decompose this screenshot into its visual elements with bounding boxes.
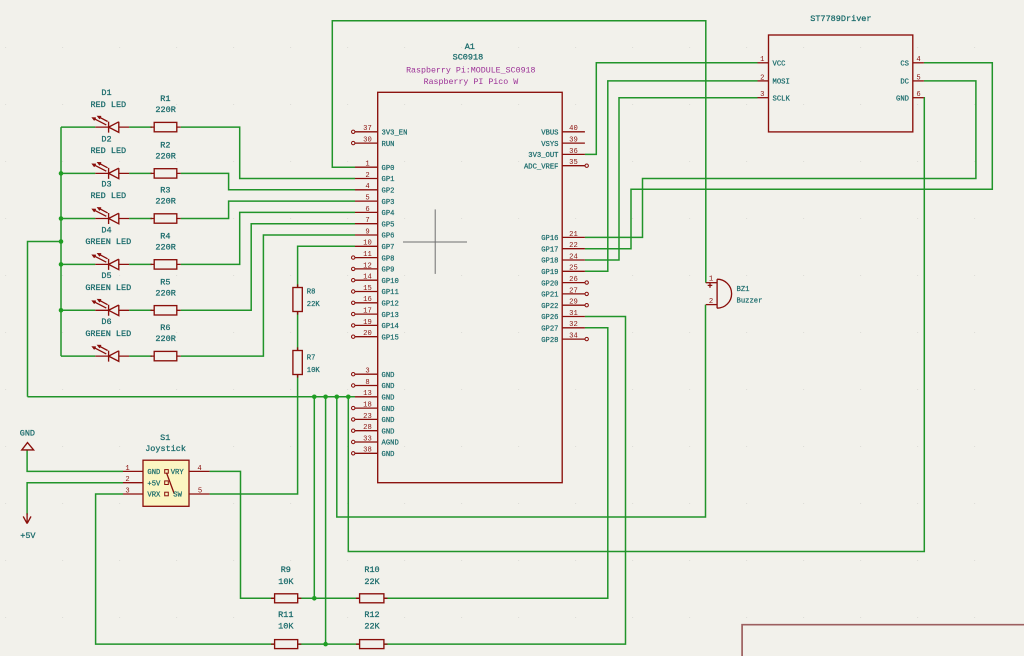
svg-text:A1: A1 [465,42,475,52]
svg-text:220R: 220R [155,288,175,298]
svg-text:1: 1 [365,161,369,169]
svg-text:VSYS: VSYS [541,141,558,149]
svg-text:3: 3 [760,91,764,99]
svg-text:31: 31 [569,310,578,318]
svg-text:14: 14 [363,274,372,282]
wire D5 row [61,309,152,311]
pin 4 VRY [171,465,210,477]
svg-text:GND: GND [382,451,395,459]
svg-text:R7: R7 [307,355,316,363]
svg-text:GP18: GP18 [541,258,558,266]
wire R9 to R10 [298,597,360,599]
pin 18 GND [352,402,395,414]
wire R5 to GP5 [181,224,355,311]
svg-text:37: 37 [363,125,372,133]
pin 8 GND [352,379,395,391]
wire LED cathode bus [60,127,62,356]
pin 5 DC [900,74,924,86]
svg-text:19: 19 [363,319,372,327]
svg-text:1: 1 [760,56,764,64]
LED D2 [90,134,129,179]
power symbol +5V [20,513,36,541]
svg-text:VBUS: VBUS [541,130,558,138]
pin 5 SW [173,487,209,499]
svg-text:R1: R1 [160,94,170,104]
LED D6 [85,317,131,362]
wire R7 bottom to joystick SW [210,375,298,495]
svg-text:GP0: GP0 [382,165,395,173]
svg-text:17: 17 [363,308,372,316]
svg-text:D3: D3 [101,179,111,189]
COMPONENTS [85,88,180,362]
pin 25 GP19 [541,265,585,277]
node LED bus D5 [59,308,64,313]
pin 20 GP15 [352,330,399,342]
wire D2 row [61,172,152,174]
pin 1 GP0 [355,161,394,173]
svg-text:1: 1 [709,275,713,283]
svg-text:GP27: GP27 [541,326,558,334]
wire GND bus to ST7789 GND [348,98,924,552]
svg-text:2: 2 [760,74,764,82]
pin 28 GND [352,424,395,436]
svg-text:GP2: GP2 [382,188,395,196]
svg-text:5: 5 [365,195,369,203]
wire R12 to GP26 [384,317,626,645]
svg-text:1: 1 [125,465,129,473]
svg-text:VRX: VRX [147,492,161,500]
resistor R10 [356,565,388,603]
pin 26 GP20 [541,276,588,288]
svg-text:6: 6 [365,206,369,214]
svg-text:40: 40 [569,125,578,133]
ground symbol GND [20,428,35,450]
svg-text:GND: GND [382,383,395,391]
svg-text:D5: D5 [101,271,111,281]
svg-text:220R: 220R [155,197,175,207]
svg-text:30: 30 [363,137,372,145]
pin 3 SCLK [758,91,791,103]
svg-text:32: 32 [569,321,578,329]
svg-text:Joystick: Joystick [145,444,186,454]
wire GND symbol to joystick pin1 [27,450,123,472]
wire D6 row [61,355,152,357]
svg-text:GND: GND [382,428,395,436]
svg-text:23: 23 [363,413,372,421]
svg-text:GP19: GP19 [541,269,558,277]
pin 17 GP13 [352,308,399,320]
svg-text:GND: GND [147,469,160,477]
resistor R11 [271,610,301,649]
pin 9 GP6 [355,228,394,240]
LED D4 [85,225,131,270]
wire GP19 to ST7789 MOSI [585,81,758,271]
svg-text:R6: R6 [160,323,170,333]
svg-text:16: 16 [363,296,372,304]
svg-text:25: 25 [569,265,578,273]
svg-text:GND: GND [382,372,395,380]
wire GP16 to ST7789 DC [585,81,976,238]
pin 11 GP8 [352,251,395,263]
cursor crosshair [403,209,467,274]
svg-text:10K: 10K [307,367,321,375]
wire R8 bottom to R7 top [297,312,299,351]
svg-text:R12: R12 [364,610,379,620]
node LED bus GND branch [59,239,64,244]
pin 2 MOSI [758,74,790,86]
resistor R9 [271,565,301,603]
svg-text:22: 22 [569,242,578,250]
svg-text:RED LED: RED LED [90,100,126,110]
svg-text:33: 33 [363,435,372,443]
svg-text:GND: GND [382,395,395,403]
svg-text:GP8: GP8 [382,255,395,263]
svg-text:10K: 10K [278,622,294,632]
svg-text:GP28: GP28 [541,337,558,345]
node LED bus D4 [59,262,64,267]
pin 13 GND [355,390,394,402]
wire GND bus drop to R11R12 node [325,397,327,644]
svg-text:GP14: GP14 [382,323,399,331]
pin 12 GP9 [352,262,395,274]
pin 24 GP18 [541,253,585,265]
svg-text:D6: D6 [101,317,111,327]
wire GND bus drop to R9R10 node [313,397,315,599]
svg-text:SC0918: SC0918 [453,53,484,63]
pin 15 GP11 [352,285,399,297]
svg-text:24: 24 [569,253,578,261]
svg-text:RUN: RUN [382,141,395,149]
svg-text:VCC: VCC [773,61,787,69]
svg-text:5: 5 [198,487,202,495]
svg-text:GP15: GP15 [382,334,399,342]
svg-text:3V3_EN: 3V3_EN [382,130,408,138]
wire 3V3_OUT to ST7789 VCC [585,63,758,155]
svg-text:20: 20 [363,330,372,338]
pin 1 VCC [758,56,787,68]
svg-text:220R: 220R [155,334,175,344]
svg-text:34: 34 [569,333,578,341]
svg-text:12: 12 [363,262,372,270]
wire joystick VRX to R11 [96,494,275,644]
svg-text:DC: DC [900,79,909,87]
pin 34 GP28 [541,333,588,345]
svg-text:22K: 22K [364,577,380,587]
svg-text:R8: R8 [307,289,316,297]
svg-text:GND: GND [382,417,395,425]
svg-text:4: 4 [197,465,201,473]
svg-text:GREEN LED: GREEN LED [85,283,131,293]
svg-text:GP3: GP3 [382,199,395,207]
svg-text:R4: R4 [160,232,170,242]
svg-text:GP1: GP1 [382,176,395,184]
wire D4 row [61,263,152,265]
svg-text:GND: GND [896,95,909,103]
svg-text:29: 29 [569,299,578,307]
wire R10 to GP27 [384,328,608,599]
svg-text:7: 7 [365,217,369,225]
pin 30 RUN [352,137,395,149]
module A1 Raspberry Pi Pico W body [378,42,563,483]
pin 38 GND [352,447,395,459]
svg-text:GP9: GP9 [382,267,395,275]
pin 36 3V3_OUT [528,148,585,160]
svg-text:GND: GND [382,406,395,414]
wire R2 to GP2 [181,173,355,189]
svg-text:R10: R10 [364,565,379,575]
wire GP18 to ST7789 SCLK [585,98,758,260]
svg-text:2: 2 [125,476,129,484]
svg-text:ST7789Driver: ST7789Driver [810,14,871,24]
svg-text:R11: R11 [278,610,293,620]
resistor R7 [293,347,321,377]
LED D3 [90,179,129,224]
pin 40 VBUS [541,125,585,137]
svg-text:SCLK: SCLK [773,95,791,103]
svg-text:220R: 220R [155,151,175,161]
svg-text:10: 10 [363,240,372,248]
wire GND bus to buzzer pin2 [337,305,706,517]
pin 33 AGND [352,435,399,447]
svg-text:10K: 10K [278,577,294,587]
svg-text:ADC_VREF: ADC_VREF [524,163,559,171]
node GND bus drop4 [346,395,351,400]
pin 6 GND [896,91,924,103]
svg-text:Raspberry PI Pico W: Raspberry PI Pico W [424,77,519,87]
svg-text:220R: 220R [155,105,175,115]
svg-text:MOSI: MOSI [773,79,790,87]
svg-text:R3: R3 [160,186,170,196]
pin 5 GP3 [355,195,394,207]
resistor R12 [356,610,388,649]
svg-text:GP12: GP12 [382,301,399,309]
buzzer BZ1 [706,275,763,308]
svg-text:GP10: GP10 [382,278,399,286]
pin 7 GP5 [355,217,394,229]
svg-text:GP22: GP22 [541,303,558,311]
svg-text:Buzzer: Buzzer [737,297,763,305]
node GND bus drop3 [335,395,340,400]
svg-text:35: 35 [569,159,578,167]
pin 3 VRX [123,487,168,499]
sheet border corner [742,625,1024,656]
svg-text:R2: R2 [160,141,170,151]
svg-text:D1: D1 [101,88,111,98]
svg-text:BZ1: BZ1 [737,286,750,294]
svg-text:S1: S1 [160,433,170,443]
svg-text:13: 13 [363,390,372,398]
svg-text:+5V: +5V [20,531,36,541]
node LED bus D3 [59,216,64,221]
svg-text:39: 39 [569,137,578,145]
svg-text:18: 18 [363,402,372,410]
wire GP17 to ST7789 CS [585,63,992,249]
svg-text:9: 9 [365,228,369,236]
pin 4 CS [900,56,924,68]
pin 37 3V3_EN [352,125,408,137]
svg-text:38: 38 [363,447,372,455]
pin 31 GP26 [541,310,585,322]
pin 1 GND [123,465,168,477]
svg-text:8: 8 [365,379,369,387]
svg-text:SW: SW [173,492,182,500]
resistor R8 [293,284,321,314]
svg-text:Raspberry Pi:MODULE_SC0918: Raspberry Pi:MODULE_SC0918 [406,65,535,75]
svg-text:3: 3 [125,487,129,495]
resistor R1 [151,94,181,132]
svg-text:GP26: GP26 [541,314,558,322]
svg-text:GP16: GP16 [541,235,558,243]
svg-text:RED LED: RED LED [90,191,126,201]
svg-text:27: 27 [569,287,578,295]
svg-text:GP17: GP17 [541,246,558,254]
wire D3 row [61,218,152,220]
svg-text:GP20: GP20 [541,280,558,288]
pin 6 GP4 [355,206,394,218]
pin 19 GP14 [352,319,399,331]
node R9 R10 junction [312,596,317,601]
svg-text:D2: D2 [101,134,111,144]
svg-text:3: 3 [365,368,369,376]
pin 4 GP2 [355,183,394,195]
wire joystick VRY to R9 [210,471,275,598]
svg-text:4: 4 [365,183,369,191]
pin 2 +5V [123,476,168,488]
wire +5V symbol to joystick pin2 [27,483,123,515]
svg-text:R5: R5 [160,277,170,287]
svg-text:21: 21 [569,231,578,239]
svg-text:RED LED: RED LED [90,146,126,156]
svg-text:6: 6 [916,91,920,99]
node LED bus D2 [59,171,64,176]
pin 39 VSYS [541,137,585,149]
svg-text:5: 5 [916,74,920,82]
svg-text:GP11: GP11 [382,289,399,297]
wire GP0 to buzzer top route [332,21,706,283]
svg-text:26: 26 [569,276,578,284]
JUNCTIONS [59,171,351,646]
svg-text:GND: GND [20,428,35,438]
resistor R5 [151,277,181,315]
svg-text:GP21: GP21 [541,292,558,300]
svg-text:GP13: GP13 [382,312,399,320]
resistor R3 [151,186,181,224]
svg-text:GREEN LED: GREEN LED [85,237,131,247]
svg-text:15: 15 [363,285,372,293]
svg-text:GP4: GP4 [382,210,395,218]
svg-text:2: 2 [709,298,713,306]
svg-text:11: 11 [363,251,372,259]
svg-text:22K: 22K [364,622,380,632]
node R11 R12 junction [323,642,328,647]
resistor R4 [151,232,181,270]
resistor R6 [151,323,181,361]
wire R11 to R12 [298,643,360,645]
svg-text:2: 2 [365,172,369,180]
wire R4 to GP4 [181,212,355,264]
wire GP7 to R8 top [298,246,355,287]
pin 29 GP22 [541,299,588,311]
svg-text:D4: D4 [101,225,111,235]
svg-text:CS: CS [900,61,909,69]
joystick S1 body [143,433,189,506]
svg-text:AGND: AGND [382,440,399,448]
pin 16 GP12 [352,296,399,308]
pin 22 GP17 [541,242,585,254]
pin 10 GP7 [355,240,394,252]
wire GND bus to pico pin13 [28,396,356,398]
pin 32 GP27 [541,321,585,333]
svg-text:4: 4 [916,56,920,64]
svg-text:+5V: +5V [147,480,161,488]
pin 2 GP1 [355,172,394,184]
svg-text:GP5: GP5 [382,221,395,229]
pin 3 GND [352,368,395,380]
pin 14 GP10 [352,274,399,286]
svg-text:3V3_OUT: 3V3_OUT [528,152,559,160]
wire R3 to GP3 [181,201,355,218]
svg-text:GP7: GP7 [382,244,395,252]
wire LED bus to GND branch [28,242,62,397]
pin 27 GP21 [541,287,588,299]
pin 23 GND [352,413,395,425]
wire R6 to GP6 [181,235,355,356]
node GND bus drop2 [323,395,328,400]
svg-text:VRY: VRY [171,469,185,477]
LED D5 [85,271,131,316]
pin 35 ADC_VREF [524,159,588,171]
connector ST7789Driver body [769,14,913,132]
svg-text:22K: 22K [307,301,321,309]
wire D1 row [61,126,152,128]
LED D1 [90,88,129,133]
svg-text:36: 36 [569,148,578,156]
node GND bus drop1 [312,395,317,400]
svg-text:220R: 220R [155,242,175,252]
pin 21 GP16 [541,231,585,243]
svg-text:28: 28 [363,424,372,432]
resistor R2 [151,141,181,179]
svg-text:GP6: GP6 [382,233,395,241]
wire R1 to GP1 [181,127,355,178]
svg-text:R9: R9 [281,565,291,575]
svg-text:GREEN LED: GREEN LED [85,329,131,339]
